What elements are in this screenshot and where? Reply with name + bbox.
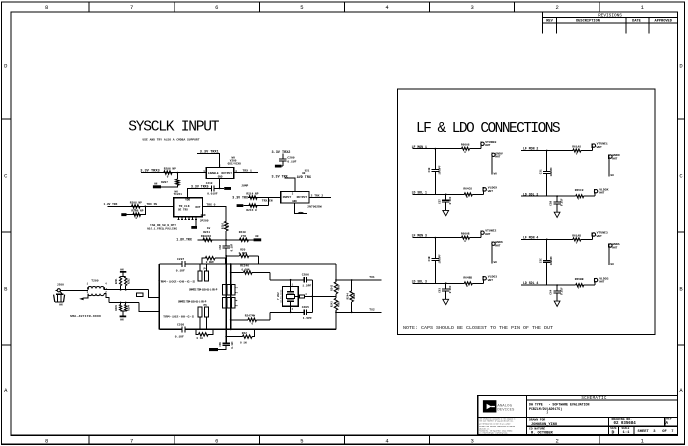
svg-text:TC2X1: TC2X1 (174, 193, 183, 196)
svg-text:WHT: WHT (485, 233, 490, 236)
svg-text:C63: C63 (438, 288, 441, 293)
resistor R243 on right edge lower (334, 298, 337, 310)
svg-text:OE TRX: OE TRX (178, 208, 188, 211)
terminal VTUNE3 (592, 236, 594, 239)
svg-text:TX2: TX2 (369, 309, 375, 312)
wire crystal center tap (305, 295, 336, 297)
svg-text:J200: J200 (57, 283, 64, 286)
regulator U201 (281, 192, 309, 203)
crystal Y202 internals (290, 287, 292, 292)
svg-text:SCHEMATIC: SCHEMATIC (581, 397, 607, 401)
svg-text:C30: C30 (428, 167, 431, 172)
svg-text:3: 3 (470, 4, 473, 11)
wire R207 to ground (161, 185, 177, 187)
svg-text:R203: R203 (115, 305, 118, 311)
junction lower divider (120, 302, 122, 304)
svg-text:WH: WH (611, 174, 615, 177)
resistor R31 bypass loop bottom (196, 329, 199, 334)
wire crystal loop bottom (270, 311, 304, 313)
svg-text:R214 NP: R214 NP (246, 193, 258, 196)
wire crystal top lead (290, 280, 292, 287)
resistor R204 (125, 303, 127, 305)
wire upper path to box (149, 290, 160, 298)
wire GND6 stub (491, 245, 493, 263)
junction rail A bottom (225, 329, 227, 331)
resistor R207 (176, 173, 178, 180)
crystal side pin (295, 295, 300, 297)
svg-text:DRAWN FOR: DRAWN FOR (529, 419, 545, 422)
svg-text:XO-51-XXXX: XO-51-XXXX (279, 289, 282, 303)
svg-text:TRX 0: TRX 0 (206, 204, 215, 207)
svg-text:NOTE: CAPS SHOULD BE CLOSEST T: NOTE: CAPS SHOULD BE CLOSEST TO THE PIN … (403, 325, 553, 331)
wire output TX1 (336, 279, 381, 281)
svg-text:3.3V TRX2: 3.3V TRX2 (272, 151, 291, 155)
svg-text:0 OHM: 0 OHM (242, 268, 250, 271)
svg-text:JOHNSON_YING: JOHNSON_YING (531, 423, 557, 427)
svg-text:0 OHM: 0 OHM (206, 261, 214, 264)
svg-text:SIZE: SIZE (610, 427, 617, 430)
svg-text:LF & LDO CONNECTIONS: LF & LDO CONNECTIONS (416, 121, 560, 137)
TCXO U202 (174, 198, 203, 217)
junction upper divider (120, 289, 122, 291)
svg-text:1000PF: 1000PF (550, 167, 553, 177)
svg-text:WHT: WHT (599, 281, 604, 284)
resistor R203 (120, 303, 122, 305)
wire LD SDL 4 row (521, 284, 576, 286)
svg-text:R247MW: R247MW (245, 315, 256, 318)
junction cap tap C30 (434, 148, 436, 150)
U202 bottom pins (178, 217, 180, 220)
svg-text:R60AB: R60AB (461, 233, 470, 236)
wire R210 down to FB node (225, 231, 227, 240)
svg-text:WHT: WHT (485, 144, 490, 147)
svg-text:TRX IN: TRX IN (147, 203, 158, 206)
svg-text:C209: C209 (287, 156, 294, 159)
svg-text:WHT: WHT (612, 157, 617, 160)
svg-text:C65: C65 (219, 342, 222, 347)
wire 3.3V_TRX1 to U200 pin4 (197, 154, 219, 168)
wire box left edge (158, 264, 160, 329)
wire LF MON 4 row (521, 238, 573, 240)
svg-text:R61AB: R61AB (572, 234, 581, 237)
capacitor C205 (303, 310, 305, 316)
capacitor C3C (546, 239, 548, 260)
svg-text:1000PF: 1000PF (550, 256, 553, 266)
ground bar lower divider (120, 316, 127, 318)
svg-text:6: 6 (215, 438, 218, 445)
svg-text:R65C8: R65C8 (575, 189, 584, 192)
capacitor C210 (211, 186, 213, 192)
svg-text:TRM-102-00-G-S: TRM-102-00-G-S (163, 315, 195, 318)
ground arrow (554, 212, 560, 217)
svg-text:R20: R20 (240, 248, 245, 251)
svg-text:0 OHM: 0 OHM (239, 252, 248, 255)
resistor R208 (132, 205, 141, 208)
svg-text:DRAWING NO.: DRAWING NO. (612, 417, 633, 421)
ferrite bead R241 (203, 238, 212, 241)
oscillator U200 (206, 167, 234, 178)
Analog Devices logo (483, 400, 497, 412)
svg-text:P4: P4 (204, 268, 208, 271)
svg-text:2 TRX 2: 2 TRX 2 (311, 194, 324, 197)
svg-text:C57: C57 (438, 199, 441, 204)
svg-text:49R9: 49R9 (337, 284, 340, 290)
resistor R20 bypass (226, 255, 239, 257)
svg-text:0.1UF: 0.1UF (176, 270, 185, 273)
svg-text:C58: C58 (550, 200, 553, 205)
svg-text:CO NATURE: CO NATURE (529, 428, 545, 431)
svg-text:0.1UF: 0.1UF (449, 285, 452, 293)
svg-text:27R: 27R (241, 235, 246, 238)
wire 3.3V_TRX2 to C209 (282, 154, 284, 159)
ground WH for R207 (153, 185, 161, 188)
svg-text:C64: C64 (550, 289, 553, 294)
svg-text:0.1UF: 0.1UF (449, 196, 452, 204)
svg-text:SHEET 3 OF 7: SHEET 3 OF 7 (638, 430, 674, 434)
crystal box Y202 (282, 287, 298, 307)
wire T200 upper output (106, 289, 108, 290)
svg-text:C205: C205 (302, 306, 309, 309)
wire TRX_EN input network (248, 197, 281, 199)
capacitor C64 (556, 285, 558, 290)
rail A vertical (225, 256, 227, 264)
svg-text:0 1W: 0 1W (197, 337, 204, 340)
junction cap tap C3C (546, 239, 548, 241)
svg-text:R202: R202 (128, 278, 131, 284)
svg-text:WHT: WHT (597, 146, 602, 149)
svg-text:R65BB: R65BB (575, 278, 584, 281)
resistor R206 (164, 171, 172, 174)
svg-text:WH: WH (494, 172, 498, 175)
svg-text:R204: R204 (128, 305, 131, 311)
svg-text:0.1UF: 0.1UF (561, 287, 564, 295)
junction cap tap C63 (445, 282, 447, 284)
svg-text:WH: WH (494, 261, 498, 264)
resistor R209 (133, 213, 141, 216)
ground arrow (443, 299, 449, 304)
junction cap tap C31 (546, 150, 548, 152)
capacitor C57 (445, 194, 447, 199)
wire R215 junction up (268, 198, 270, 206)
svg-text:WHT: WHT (599, 192, 604, 195)
resistor RC246 (231, 272, 244, 274)
wire box right edge (335, 264, 337, 282)
junction cap tap C3B (434, 237, 436, 239)
junction cap tap C57 (445, 194, 447, 196)
resistor R244 termination (351, 280, 353, 291)
wire output TX2 (336, 311, 381, 313)
svg-text:IS PROPRIETARY INFORMATION.: IS PROPRIETARY INFORMATION. (479, 432, 508, 435)
terminal VTUNE1 (592, 147, 594, 150)
revisions table grid (542, 12, 544, 33)
svg-text:R241: R241 (203, 231, 210, 234)
svg-text:TRX 1: TRX 1 (243, 169, 252, 173)
svg-text:R209 NP: R209 NP (131, 210, 143, 213)
wire U202 gnd pin (195, 220, 197, 226)
svg-text:APPROVED: APPROVED (655, 20, 673, 24)
svg-text:LF MON 3: LF MON 3 (412, 234, 427, 238)
svg-text:2: 2 (556, 4, 559, 11)
capacitor C3B (434, 238, 436, 259)
svg-text:R210: R210 (221, 222, 224, 229)
svg-text:OUTPUT: OUTPUT (297, 196, 308, 199)
wire LF MON 1 row (413, 148, 462, 150)
svg-text:R64C8: R64C8 (463, 187, 472, 190)
connector P5 (198, 307, 202, 317)
wire GNDO stub (608, 158, 610, 176)
terminal GNDV (491, 153, 493, 157)
svg-text:02 035684: 02 035684 (614, 422, 637, 426)
svg-text:1.8V TRX: 1.8V TRX (104, 203, 118, 206)
svg-text:7: 7 (130, 4, 133, 11)
svg-text:SAMTEC TSM-103-01-L-DV-P: SAMTEC TSM-103-01-L-DV-P (189, 288, 218, 291)
junction node R207 tap (177, 172, 179, 174)
junction FB node (225, 239, 227, 241)
wire to U201 pin top (285, 178, 295, 192)
resistor R242 on right edge upper (334, 282, 337, 294)
resistor R201 (119, 277, 121, 286)
junction U200 gnd and supply rail (219, 188, 221, 190)
svg-text:WHT: WHT (488, 279, 493, 282)
svg-text:SYSCLK INPUT: SYSCLK INPUT (128, 119, 219, 135)
svg-text:ADJ_1_FREQ_PULLING: ADJ_1_FREQ_PULLING (147, 228, 178, 231)
svg-text:3.3V TRX3: 3.3V TRX3 (140, 170, 160, 174)
resistor R21 bypass loop top (202, 258, 205, 264)
wire J200 shield (60, 292, 62, 294)
wire crystal loop right (311, 280, 313, 313)
svg-text:USE AND TRY ALSO A CMDBA SUPPO: USE AND TRY ALSO A CMDBA SUPPORT (143, 139, 200, 142)
svg-text:SAMTEC TSM-103-01-L-DV-P: SAMTEC TSM-103-01-L-DV-P (178, 301, 207, 304)
svg-text:P5: P5 (204, 304, 208, 307)
wire crystal loop top (270, 279, 304, 281)
svg-text:REVISIONS: REVISIONS (598, 14, 622, 19)
wire pulldown branch (126, 206, 145, 214)
wire U201 output net TRX_2 (309, 196, 331, 198)
resistor R247 (231, 319, 248, 321)
svg-text:1W: 1W (207, 227, 211, 230)
ground bar C210 (224, 187, 231, 190)
header SAMTEC lower (223, 298, 226, 309)
svg-text:0.1UF: 0.1UF (231, 243, 234, 251)
svg-text:0.1UF: 0.1UF (287, 160, 296, 163)
svg-text:1000PF: 1000PF (439, 165, 442, 175)
svg-text:R61A8: R61A8 (572, 145, 581, 148)
ground arrow T200 (79, 298, 83, 301)
svg-text:WH: WH (120, 319, 124, 322)
zone tick marks bottom (88, 435, 90, 444)
svg-text:5: 5 (300, 438, 303, 445)
svg-text:PCBZLM/DU(AD9175): PCBZLM/DU(AD9175) (529, 407, 562, 411)
svg-text:5: 5 (300, 4, 303, 11)
svg-text:WHT: WHT (612, 246, 617, 249)
ground bar R215 (237, 204, 244, 207)
svg-text:0.1UF: 0.1UF (561, 198, 564, 206)
svg-text:0.1UF: 0.1UF (231, 341, 234, 349)
J200 shield symbol (56, 293, 63, 295)
svg-text:R243: R243 (331, 301, 334, 307)
svg-text:R22: R22 (242, 332, 247, 335)
svg-text:REV: REV (666, 418, 672, 421)
svg-text:FB0816: FB0816 (201, 235, 212, 238)
terminal GND6 (491, 242, 493, 246)
svg-text:SMA-J071TR-XXXX: SMA-J071TR-XXXX (70, 315, 102, 318)
svg-text:R215 0: R215 0 (246, 209, 257, 212)
wire supply to U202 top (188, 188, 212, 197)
svg-text:1.5PF: 1.5PF (303, 317, 312, 320)
resistor R61A8 (573, 149, 581, 152)
wire U200 input (141, 172, 206, 174)
capacitor C30 (434, 149, 436, 170)
svg-text:C3B: C3B (428, 256, 431, 261)
wire RC246 to crystal loop (269, 273, 271, 280)
junction R20 tap (225, 255, 227, 257)
LF and LDO connections box (398, 89, 656, 335)
wire T200 lower output (104, 294, 109, 303)
wire crystal bottom lead (290, 306, 292, 312)
svg-text:R60A8: R60A8 (461, 144, 470, 147)
junction cap tap C58 (556, 195, 558, 197)
svg-text:GND: GND (218, 176, 223, 179)
wire LF MON 2 row (521, 150, 573, 152)
wire LF MON 3 row (413, 237, 462, 239)
svg-text:2: 2 (556, 438, 559, 445)
svg-text:C208: C208 (177, 324, 184, 327)
svg-text:T200: T200 (91, 280, 98, 283)
svg-text:D: D (612, 430, 615, 436)
terminal VLDOX (594, 193, 596, 196)
svg-text:100R: 100R (353, 293, 356, 300)
svg-text:TRX_EN: TRX_EN (262, 200, 273, 203)
capacitor C63 (445, 283, 447, 288)
junction pulldown tap (144, 206, 146, 208)
svg-text:OUTPUT: OUTPUT (221, 172, 232, 175)
wire J200 to T200 (60, 289, 88, 291)
svg-text:7: 7 (130, 438, 133, 445)
svg-text:6: 6 (215, 4, 218, 11)
svg-text:WHT: WHT (488, 190, 493, 193)
svg-text:VDD: VDD (185, 199, 190, 202)
title block outline (478, 396, 678, 435)
capacitor C208 (181, 327, 183, 333)
ground arrow (443, 210, 449, 215)
svg-text:R. OCTOBER: R. OCTOBER (531, 432, 553, 436)
title block grid lines (526, 396, 528, 435)
svg-text:TX1: TX1 (369, 276, 375, 279)
wire U201 gnd (294, 203, 307, 214)
capacitor C65 rail bottom (223, 342, 230, 344)
svg-text:RC246: RC246 (240, 265, 249, 268)
zone tick marks left (2, 118, 12, 120)
svg-text:JUMP: JUMP (241, 185, 248, 188)
wire LD SDL 1 row (413, 193, 465, 195)
wire LD SDL 2 row (521, 195, 576, 197)
capacitor C209 (279, 158, 286, 160)
wire C209 to ground (282, 161, 284, 166)
svg-text:WH: WH (154, 182, 158, 185)
wire lower path to box (139, 303, 159, 312)
resistor R65C8 (576, 195, 584, 198)
wire lower divider bottom to ground (121, 310, 126, 312)
winding polarity dots (87, 287, 89, 289)
svg-text:R64BB: R64BB (463, 276, 472, 279)
resistor R214 (249, 196, 257, 199)
svg-text:WH: WH (611, 263, 615, 266)
wire U200 gnd pin down (219, 179, 221, 189)
svg-text:GND: GND (292, 200, 297, 203)
svg-text:2N7002DW: 2N7002DW (307, 206, 322, 209)
wire FB row (198, 239, 255, 241)
svg-text:WH: WH (59, 304, 63, 307)
svg-text:C3C: C3C (539, 258, 542, 263)
ground bar C65 (209, 348, 218, 351)
attenuator pad P201 (136, 293, 143, 297)
header SAMTEC upper (223, 285, 226, 296)
svg-text:1000PF: 1000PF (439, 254, 442, 264)
svg-text:WHT: WHT (495, 245, 500, 248)
svg-text:R240: R240 (239, 231, 246, 234)
svg-text:TRM-102-00-G-S: TRM-102-00-G-S (158, 281, 196, 284)
wire U200 output net TRX_1 (234, 172, 258, 174)
svg-text:C31: C31 (539, 169, 542, 174)
svg-text:OSC/VCXO: OSC/VCXO (228, 162, 242, 166)
transformer T200 secondary (88, 294, 104, 296)
svg-text:R242: R242 (331, 284, 334, 290)
svg-text:GND: GND (201, 214, 206, 217)
svg-text:AVD TRX: AVD TRX (297, 176, 312, 180)
ground bar U202 (191, 226, 197, 229)
svg-text:1.5PF: 1.5PF (302, 285, 311, 288)
resistor R215 pulldown (244, 205, 269, 207)
terminal VLDO3 (594, 282, 596, 285)
ground bar FB row (254, 238, 262, 241)
svg-text:C66: C66 (219, 244, 222, 249)
svg-text:WH: WH (120, 268, 124, 271)
wire T200 secondary left to ground (84, 294, 88, 298)
terminal VLDO3 (482, 280, 484, 283)
svg-text:DATE: DATE (632, 20, 641, 24)
svg-text:0.1UF: 0.1UF (175, 335, 184, 338)
svg-text:C206: C206 (302, 274, 309, 277)
resistor R60AB (462, 236, 470, 239)
svg-text:WHT: WHT (495, 156, 500, 159)
wire upper divider top (122, 273, 124, 277)
resistor R60A8 (462, 147, 470, 150)
terminal VTUNE0 (480, 145, 482, 148)
wire U202 input (108, 205, 174, 207)
svg-text:R201: R201 (115, 278, 118, 284)
zone tick marks right (678, 118, 685, 120)
svg-text:3: 3 (470, 438, 473, 445)
svg-text:C207: C207 (177, 258, 184, 261)
svg-text:49R9: 49R9 (337, 301, 340, 307)
resistor R64BB (464, 282, 472, 285)
capacitor C206 (303, 277, 305, 283)
capacitor C207 (181, 261, 183, 267)
svg-text:INPUT: INPUT (282, 196, 291, 199)
wire GNDV stub (491, 157, 493, 175)
resistor R210 (225, 221, 228, 231)
resistor R61AB (573, 238, 581, 241)
svg-text:DESCRIPTION: DESCRIPTION (576, 20, 600, 24)
wire U202 output net TRX_0 (203, 207, 227, 222)
svg-text:R206 NP: R206 NP (164, 167, 176, 170)
svg-text:WHT: WHT (597, 235, 602, 238)
svg-text:R244: R244 (347, 293, 350, 300)
svg-text:1.8V_TRX: 1.8V_TRX (176, 238, 192, 242)
resistor R240 (240, 238, 249, 241)
svg-text:3.3V TRX: 3.3V TRX (232, 195, 248, 199)
svg-text:C210: C210 (206, 182, 213, 185)
